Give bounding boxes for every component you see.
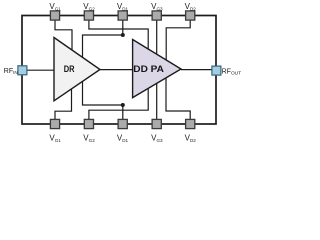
amplifier DR <box>54 38 100 101</box>
wire DD PA to RFout <box>181 69 212 71</box>
wire top VG1 <box>55 20 72 50</box>
wire top VD1 <box>83 20 123 57</box>
wire bottom VG1 <box>55 89 72 120</box>
pad top VG2 <box>84 11 93 20</box>
pad bottom VD2 <box>186 119 195 128</box>
amplifier DD PA <box>133 40 181 98</box>
pad RFout <box>212 66 221 75</box>
wire bottom VG2 <box>89 88 148 119</box>
wire DR to DD PA <box>100 69 133 71</box>
wire top VG3 <box>156 20 158 54</box>
pad top VD2 <box>186 11 195 20</box>
junction dot bottom VD1 <box>121 103 125 107</box>
wire RFin to DR <box>27 69 54 71</box>
wire top VG2 <box>89 20 148 49</box>
pad bottom VG2 <box>84 119 93 128</box>
pad RFin <box>18 66 27 75</box>
svg-text:DD PA: DD PA <box>133 64 164 74</box>
chip outline box <box>22 16 216 125</box>
svg-text:DR: DR <box>64 64 75 74</box>
pad bottom VG3 <box>152 119 161 128</box>
junction dot top VD1 <box>121 33 125 37</box>
wire bottom VD2 <box>166 78 190 120</box>
wire bottom VG3 <box>156 83 158 119</box>
wire top VD2 <box>166 20 190 60</box>
pad bottom VG1 <box>50 119 59 128</box>
wire bottom VD1 <box>83 81 123 119</box>
pad top VG1 <box>50 11 59 20</box>
pad top VG3 <box>152 11 161 20</box>
pad bottom VD1 <box>118 119 127 128</box>
pad top VD1 <box>118 11 127 20</box>
